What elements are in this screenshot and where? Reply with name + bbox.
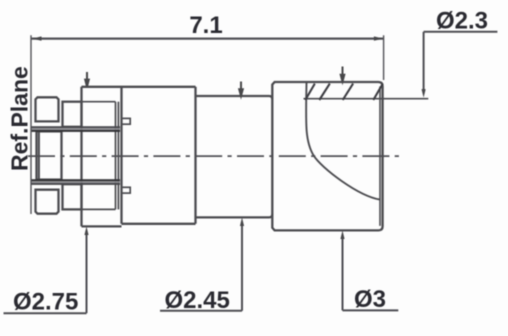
section diam 2.45 <box>196 96 273 217</box>
dimension 7.1 <box>31 35 384 214</box>
main body (middle section) <box>122 87 196 224</box>
top tick mark diam 3 <box>341 67 345 82</box>
nut inner edge line <box>379 87 381 226</box>
svg-text:Ø2.45: Ø2.45 <box>165 287 230 314</box>
lip groove ring B1 <box>63 102 82 127</box>
shell right edge line <box>117 102 119 210</box>
leader diam 2.3 <box>424 32 498 91</box>
collar internal bore lines <box>82 102 116 210</box>
bore line diam 2.3 <box>304 98 429 100</box>
arrow diam 3 <box>340 231 344 240</box>
solder tab bottom <box>122 187 131 193</box>
connector front lip band A2 <box>37 131 62 179</box>
lip groove ring B3 <box>63 184 82 209</box>
svg-text:Ø3: Ø3 <box>354 286 386 313</box>
connector front lip band A1 <box>36 97 59 121</box>
nut internal arc <box>306 83 380 200</box>
leader diam 2.75 <box>4 231 87 313</box>
connector front lip band A3 <box>36 190 59 214</box>
arrow diam 2.75 <box>84 227 88 236</box>
svg-text:7.1: 7.1 <box>189 12 222 39</box>
leader diam 2.45 <box>160 222 242 311</box>
centerline <box>28 155 402 157</box>
arrow diam 2.45 <box>240 218 244 227</box>
svg-text:Ø2.3: Ø2.3 <box>436 7 488 34</box>
hatch strokes in nut section <box>305 84 383 100</box>
top tick mark diam 2.45 <box>239 82 243 96</box>
arrow diam 2.3 <box>422 89 426 98</box>
top tick mark diam 2.75 <box>85 72 89 87</box>
svg-text:Ø2.75: Ø2.75 <box>13 289 78 316</box>
nut body (diam 3) <box>272 82 382 230</box>
leader diam 3 <box>343 235 399 311</box>
shell slot bar bottom <box>31 179 120 185</box>
shell slot bar top <box>31 126 120 132</box>
shell collar (diam 2.75) <box>82 87 122 227</box>
solder tab top <box>122 118 131 124</box>
svg-text:Ref.Plane: Ref.Plane <box>7 66 33 171</box>
